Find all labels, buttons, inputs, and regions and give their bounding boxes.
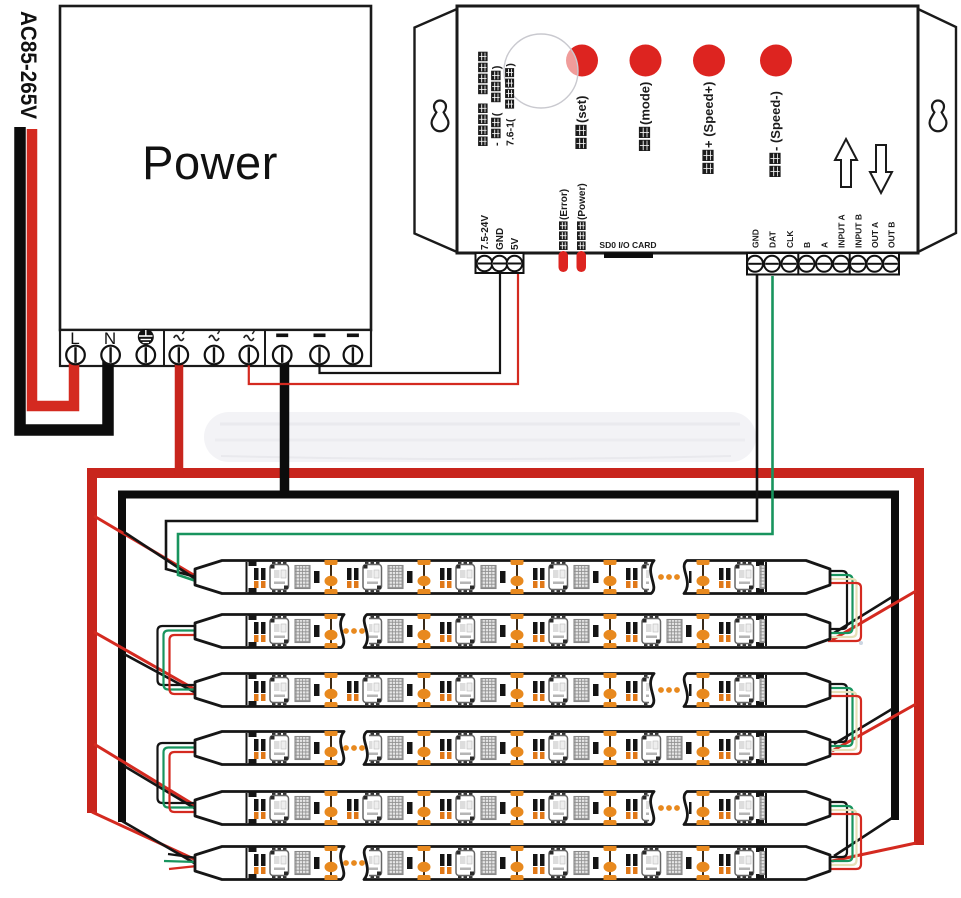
svg-text:CLK: CLK: [785, 230, 795, 248]
svg-text:): ): [491, 65, 503, 69]
svg-text:N: N: [104, 329, 116, 348]
svg-text:5V: 5V: [510, 237, 521, 250]
svg-text:INPUT A: INPUT A: [837, 214, 847, 248]
svg-text:L: L: [70, 329, 79, 348]
svg-text:A: A: [820, 242, 830, 248]
svg-text:7.5-24V: 7.5-24V: [480, 215, 491, 250]
svg-text:GND: GND: [495, 228, 506, 250]
svg-text:INPUT B: INPUT B: [854, 214, 864, 248]
svg-text:(: (: [491, 112, 503, 116]
svg-text:(Error): (Error): [559, 189, 570, 220]
svg-text:SD0 I/O CARD: SD0 I/O CARD: [599, 240, 656, 250]
svg-text:7.6-1(: 7.6-1(: [505, 118, 517, 146]
svg-text:OUT A: OUT A: [870, 222, 880, 248]
svg-text:): ): [505, 63, 517, 67]
svg-text:(set): (set): [574, 96, 589, 123]
svg-text:- (Speed-): - (Speed-): [768, 91, 783, 151]
svg-text:AC85-265V: AC85-265V: [16, 11, 41, 119]
svg-text:(Power): (Power): [577, 183, 588, 220]
svg-text:B: B: [802, 242, 812, 248]
svg-text:GND: GND: [751, 229, 761, 248]
svg-text:DAT: DAT: [768, 230, 778, 248]
svg-text:-: -: [491, 142, 503, 146]
svg-text:(mode): (mode): [638, 82, 653, 125]
svg-text:Power: Power: [142, 136, 278, 189]
svg-text:OUT B: OUT B: [887, 222, 897, 248]
svg-text:+ (Speed+): + (Speed+): [701, 82, 716, 148]
